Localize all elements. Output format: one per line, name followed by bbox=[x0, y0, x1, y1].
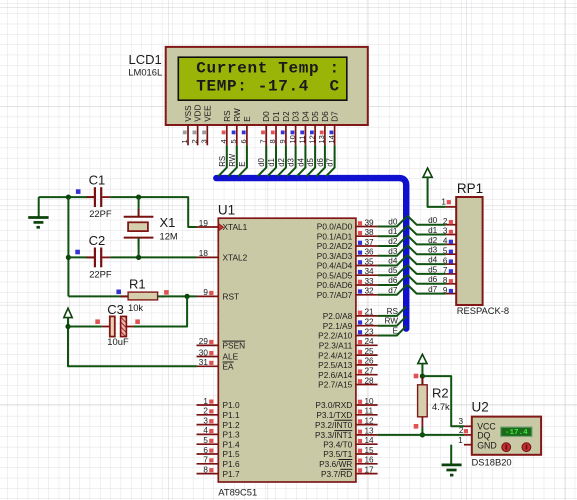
svg-text:12M: 12M bbox=[160, 231, 178, 242]
state square left of C3 bbox=[95, 319, 100, 324]
U1 pin 15 state square bbox=[358, 449, 362, 453]
svg-text:RS: RS bbox=[218, 156, 227, 167]
svg-text:P2.2/A10: P2.2/A10 bbox=[318, 331, 353, 341]
LCD pin 3 VEE stub bbox=[206, 125, 208, 145]
wire bus to RP1 pin 9 (d7) bbox=[407, 284, 446, 293]
svg-text:d5: d5 bbox=[428, 265, 438, 274]
LCD pin 8 state square bbox=[271, 131, 275, 135]
U1 pin 9 state square bbox=[209, 291, 213, 295]
svg-text:11: 11 bbox=[298, 136, 307, 144]
svg-text:D3: D3 bbox=[292, 111, 301, 122]
svg-text:d0: d0 bbox=[428, 216, 438, 225]
svg-text:23: 23 bbox=[365, 327, 375, 336]
svg-text:d6: d6 bbox=[316, 158, 325, 167]
svg-text:d3: d3 bbox=[388, 247, 398, 256]
svg-text:3: 3 bbox=[458, 417, 463, 426]
svg-text:GND: GND bbox=[477, 441, 497, 451]
U1 pin 21 state square bbox=[358, 311, 362, 315]
U1 pin 8 state square bbox=[209, 468, 213, 472]
svg-text:EA: EA bbox=[223, 362, 235, 372]
svg-text:P2.3/A11: P2.3/A11 bbox=[319, 341, 353, 351]
RP1 pin 3 stub bbox=[446, 234, 456, 236]
svg-text:2: 2 bbox=[203, 407, 208, 416]
LCD pin 13 D6 stub bbox=[324, 125, 326, 145]
LCD pin 14 state square bbox=[330, 131, 334, 135]
U2 pin 3 VCC stub bbox=[464, 425, 472, 427]
svg-text:d7: d7 bbox=[428, 285, 438, 294]
junction at rail/C1 bbox=[66, 195, 71, 200]
wire rail vertical C1-C2-R1 bbox=[67, 197, 69, 296]
XTAL1 clock input arrowhead bbox=[219, 224, 224, 231]
svg-text:14: 14 bbox=[327, 135, 336, 143]
LCD pin 6 state square bbox=[242, 131, 246, 135]
U1 pin 32 state square bbox=[358, 289, 362, 293]
svg-text:R2: R2 bbox=[432, 386, 449, 401]
U1 pin 35 P0.4/AD4 stub bbox=[356, 265, 378, 267]
wire P0.2 to bus (d2) bbox=[378, 237, 407, 246]
junction C2/crystal bbox=[136, 255, 141, 260]
U1 pin 16 P3.6/WR stub bbox=[356, 463, 378, 465]
svg-text:XTAL2: XTAL2 bbox=[223, 253, 248, 263]
svg-text:39: 39 bbox=[365, 218, 375, 227]
svg-text:P3.6/WR: P3.6/WR bbox=[319, 459, 352, 469]
svg-text:RW: RW bbox=[233, 108, 242, 122]
U1 pin 26 P2.5/A13 stub bbox=[356, 364, 378, 366]
svg-text:P0.5/AD5: P0.5/AD5 bbox=[317, 270, 353, 280]
LCD pin 5 state square bbox=[232, 131, 236, 135]
svg-text:30: 30 bbox=[199, 348, 209, 357]
U1 pin 11 P3.1/TXD stub bbox=[356, 414, 378, 416]
U1 pin 1 state square bbox=[209, 400, 213, 404]
LCD pin 7 D0 stub bbox=[265, 125, 267, 145]
svg-text:38: 38 bbox=[365, 228, 375, 237]
RP1 pin 4 state square bbox=[449, 240, 453, 244]
LCD pin 4 state square bbox=[222, 131, 226, 135]
svg-text:VSS: VSS bbox=[184, 105, 193, 122]
svg-text:ALE: ALE bbox=[223, 352, 239, 362]
wire P2.2 to bus (E) bbox=[378, 326, 407, 335]
wire P0.1 to bus (d1) bbox=[378, 227, 407, 236]
svg-text:RST: RST bbox=[223, 292, 240, 302]
U1 pin 37 P0.2/AD2 stub bbox=[356, 245, 378, 247]
U1 pin 21 P2.0/A8 stub bbox=[356, 315, 378, 317]
U1 pin 27 state square bbox=[358, 369, 362, 373]
RP1 pin 6 stub bbox=[446, 263, 456, 265]
svg-text:5: 5 bbox=[203, 436, 208, 445]
LCD1 screen bbox=[178, 57, 346, 100]
crystal X1 12M bbox=[138, 197, 140, 217]
U1 pin 6 P1.5 stub bbox=[197, 453, 219, 455]
wire LCD pin 12 to bus (d5) bbox=[307, 145, 316, 176]
wire bus to RP1 pin 8 (d6) bbox=[407, 275, 446, 284]
svg-text:P1.2: P1.2 bbox=[223, 420, 240, 430]
wire bus to RP1 pin 4 (d2) bbox=[407, 235, 446, 244]
svg-text:28: 28 bbox=[365, 376, 375, 385]
power arrow (VCC) for R2 bbox=[418, 354, 427, 376]
LCD pin 8 D1 stub bbox=[275, 125, 277, 145]
svg-text:AT89C51: AT89C51 bbox=[218, 486, 257, 497]
state square left of R1 bbox=[116, 290, 121, 295]
svg-text:7: 7 bbox=[258, 139, 267, 143]
capacitor C1 bbox=[86, 196, 94, 198]
state square at R2 bottom pin bbox=[414, 424, 419, 429]
power arrow (VCC) left bbox=[64, 308, 72, 326]
svg-text:d5: d5 bbox=[306, 157, 315, 166]
svg-text:36: 36 bbox=[365, 248, 375, 257]
svg-text:d6: d6 bbox=[388, 276, 398, 285]
LCD pin 5 RW stub bbox=[236, 125, 238, 145]
svg-text:VDD: VDD bbox=[194, 104, 203, 121]
wire VCC arrow to C3 and EA bbox=[68, 317, 197, 366]
svg-text:1: 1 bbox=[203, 397, 208, 406]
U1 pin 11 state square bbox=[358, 410, 362, 414]
U1 pin 23 state square bbox=[358, 330, 362, 334]
svg-text:22PF: 22PF bbox=[89, 208, 112, 219]
svg-text:P3.4/T0: P3.4/T0 bbox=[323, 439, 352, 449]
U1 pin 3 state square bbox=[209, 419, 213, 423]
wire bus to RP1 pin 6 (d4) bbox=[407, 255, 446, 264]
svg-text:2: 2 bbox=[459, 426, 464, 435]
LCD pin 14 D7 stub bbox=[334, 125, 336, 145]
svg-text:P3.1/TXD: P3.1/TXD bbox=[316, 410, 352, 420]
U1 pin 27 P2.6/A14 stub bbox=[356, 374, 378, 376]
wire VCC arrow to R2 top bbox=[421, 363, 423, 384]
U1 pin 30 state square bbox=[209, 351, 213, 355]
wire LCD pin 13 to bus (d6) bbox=[316, 145, 325, 176]
RP1 pin 4 stub bbox=[446, 243, 456, 245]
svg-text:P0.1/AD1: P0.1/AD1 bbox=[317, 231, 353, 241]
resistor pack RP1 body bbox=[456, 197, 482, 305]
LCD pin 1 state square bbox=[183, 131, 187, 135]
svg-text:26: 26 bbox=[365, 357, 375, 366]
svg-text:Current Temp :: Current Temp : bbox=[196, 60, 340, 78]
svg-text:D2: D2 bbox=[282, 111, 291, 122]
U1 pin 22 P2.1/A9 stub bbox=[356, 325, 378, 327]
svg-text:P3.5/T1: P3.5/T1 bbox=[323, 449, 352, 459]
U1 pin 2 state square bbox=[209, 409, 213, 413]
wire C2 right to XTAL2 bbox=[110, 256, 196, 258]
junction R2/DQ bbox=[420, 432, 425, 437]
svg-text:12: 12 bbox=[307, 135, 316, 143]
svg-text:3: 3 bbox=[200, 139, 209, 143]
svg-text:7: 7 bbox=[203, 456, 208, 465]
U1 pin 29 state square bbox=[209, 340, 213, 344]
state square right of R1 bbox=[164, 290, 169, 295]
U1 pin 36 state square bbox=[358, 251, 362, 255]
wire LCD pin 7 to bus (d0) bbox=[258, 145, 267, 176]
svg-text:D7: D7 bbox=[331, 111, 340, 122]
wire LCD pin 5 to bus (RW) bbox=[228, 145, 237, 176]
U1 pin 19 XTAL1 stub bbox=[197, 226, 219, 228]
wire LCD pin 10 to bus (d3) bbox=[287, 145, 296, 176]
U1 pin 7 P1.6 stub bbox=[197, 463, 219, 465]
U1 pin 2 P1.1 stub bbox=[197, 414, 219, 416]
svg-text:d4: d4 bbox=[388, 257, 398, 266]
svg-text:25: 25 bbox=[365, 347, 375, 356]
svg-text:6: 6 bbox=[239, 139, 248, 143]
U2 pin 2 DQ stub bbox=[464, 434, 472, 436]
U2 temperature display bbox=[501, 427, 532, 437]
U1 pin 32 P0.7/AD7 stub bbox=[356, 294, 378, 296]
RP1 pin 2 state square bbox=[449, 220, 453, 224]
svg-text:D4: D4 bbox=[301, 111, 310, 122]
svg-text:RP1: RP1 bbox=[457, 181, 483, 196]
svg-text:P1.3: P1.3 bbox=[223, 430, 240, 440]
LCD pin 11 state square bbox=[300, 131, 304, 135]
svg-text:E: E bbox=[238, 162, 247, 167]
U1 pin 28 state square bbox=[358, 379, 362, 383]
state square right of C3 bbox=[135, 319, 140, 324]
svg-text:RW: RW bbox=[228, 153, 237, 166]
capacitor C3 10uF (electrolytic) bbox=[102, 326, 110, 328]
U1 pin 25 P2.4/A12 stub bbox=[356, 354, 378, 356]
U1 pin 5 P1.4 stub bbox=[197, 443, 219, 445]
wire VCC to C3 left bbox=[68, 326, 102, 328]
svg-text:RS: RS bbox=[223, 110, 232, 122]
U1 pin 38 P0.1/AD1 stub bbox=[356, 235, 378, 237]
svg-text:d5: d5 bbox=[388, 266, 398, 275]
LCD pin 3 state square bbox=[202, 131, 206, 135]
svg-text:R1: R1 bbox=[129, 277, 146, 292]
RP1 pin 3 state square bbox=[449, 230, 453, 234]
U1 pin 12 state square bbox=[358, 419, 362, 423]
U1 pin 36 P0.3/AD3 stub bbox=[356, 255, 378, 257]
svg-text:P0.3/AD3: P0.3/AD3 bbox=[317, 251, 353, 261]
svg-text:P2.0/A8: P2.0/A8 bbox=[323, 311, 353, 321]
svg-text:1: 1 bbox=[458, 436, 463, 445]
svg-text:D5: D5 bbox=[311, 111, 320, 122]
U1 pin 10 state square bbox=[358, 400, 362, 404]
wire bus to RP1 pin 5 (d3) bbox=[407, 245, 446, 254]
LCD pin 2 VDD stub bbox=[197, 125, 199, 145]
svg-text:-17.4: -17.4 bbox=[505, 429, 528, 437]
U1 pin 23 P2.2/A10 stub bbox=[356, 335, 378, 337]
wire LCD pin 11 to bus (d4) bbox=[297, 145, 306, 176]
svg-text:1: 1 bbox=[441, 198, 446, 207]
svg-text:18: 18 bbox=[199, 249, 209, 258]
svg-text:P3.7/RD: P3.7/RD bbox=[321, 469, 352, 479]
state square near C1 bbox=[76, 189, 81, 194]
svg-text:d7: d7 bbox=[326, 158, 335, 167]
U1 pin 31 EA stub bbox=[197, 365, 219, 367]
svg-text:P1.7: P1.7 bbox=[223, 469, 240, 479]
U2 button 2 bbox=[522, 443, 531, 452]
U1 pin 7 state square bbox=[209, 458, 213, 462]
svg-text:34: 34 bbox=[365, 267, 375, 276]
LCD pin 10 D3 stub bbox=[295, 125, 297, 145]
svg-text:C1: C1 bbox=[89, 172, 106, 187]
U1 pin 1 P1.0 stub bbox=[197, 404, 219, 406]
wire VCC to U2 VCC pin bbox=[422, 376, 464, 426]
svg-text:P1.4: P1.4 bbox=[223, 439, 240, 449]
U1 pin 26 state square bbox=[358, 360, 362, 364]
svg-text:d4: d4 bbox=[428, 256, 438, 265]
svg-text:32: 32 bbox=[365, 287, 375, 296]
svg-text:P0.2/AD2: P0.2/AD2 bbox=[317, 241, 353, 251]
svg-text:9: 9 bbox=[278, 139, 287, 143]
U1 pin 9 RST stub bbox=[197, 295, 219, 297]
svg-text:U1: U1 bbox=[218, 203, 235, 218]
LCD pin 9 D2 stub bbox=[285, 125, 287, 145]
svg-text:33: 33 bbox=[365, 277, 375, 286]
LCD pin 6 E stub bbox=[246, 125, 248, 145]
U1 pin 38 state square bbox=[358, 231, 362, 235]
U1 pin 14 P3.4/T0 stub bbox=[356, 443, 378, 445]
wire C1 right to XTAL1 bbox=[110, 197, 196, 227]
RP1 pin 1 stub bbox=[446, 206, 456, 208]
svg-text:35: 35 bbox=[365, 257, 375, 266]
U1 pin 12 P3.2/INT0 stub bbox=[356, 424, 378, 426]
temperature sensor U2 DS18B20 body bbox=[472, 417, 541, 455]
wire P2.0 to bus (RS) bbox=[378, 307, 407, 316]
wire P0.5 to bus (d5) bbox=[378, 266, 407, 275]
svg-text:13: 13 bbox=[317, 135, 326, 143]
svg-text:d6: d6 bbox=[428, 275, 438, 284]
wire ground to C1 (net XTAL-GND rail) bbox=[39, 196, 94, 198]
ground symbol top-left bbox=[38, 197, 40, 217]
U1 pin 24 P2.3/A11 stub bbox=[356, 344, 378, 346]
svg-text:d7: d7 bbox=[388, 286, 398, 295]
U1 pin 5 state square bbox=[209, 439, 213, 443]
svg-text:d2: d2 bbox=[428, 236, 438, 245]
U1 pin 14 state square bbox=[358, 439, 362, 443]
U2 button 1 bbox=[502, 443, 511, 452]
wire R2 bottom to DQ net bbox=[421, 427, 423, 435]
svg-text:4: 4 bbox=[219, 139, 228, 143]
U2 pin 1 GND stub bbox=[464, 444, 472, 446]
svg-text:19: 19 bbox=[199, 219, 209, 228]
svg-text:9: 9 bbox=[203, 288, 208, 297]
svg-text:DS18B20: DS18B20 bbox=[472, 457, 512, 468]
svg-text:P0.7/AD7: P0.7/AD7 bbox=[317, 290, 353, 300]
svg-text:LCD1: LCD1 bbox=[129, 52, 162, 67]
svg-text:P2.7/A15: P2.7/A15 bbox=[318, 380, 353, 390]
svg-text:2: 2 bbox=[190, 139, 199, 143]
U1 pin 24 state square bbox=[358, 340, 362, 344]
capacitor C2 bbox=[68, 256, 94, 258]
svg-text:8: 8 bbox=[203, 465, 208, 474]
resistor R2 4.7k bbox=[421, 377, 423, 385]
wire LCD pin 8 to bus (d1) bbox=[267, 145, 276, 176]
svg-text:P1.0: P1.0 bbox=[223, 400, 240, 410]
svg-text:37: 37 bbox=[365, 238, 375, 247]
svg-text:P3.2/INT0: P3.2/INT0 bbox=[315, 420, 353, 430]
U1 pin 33 P0.6/AD6 stub bbox=[356, 284, 378, 286]
RP1 pin 9 state square bbox=[449, 289, 453, 293]
svg-text:21: 21 bbox=[365, 308, 375, 317]
U1 pin 28 P2.7/A15 stub bbox=[356, 384, 378, 386]
RP1 pin 1 state square bbox=[447, 200, 451, 204]
svg-text:PSEN: PSEN bbox=[223, 341, 246, 351]
svg-text:d1: d1 bbox=[428, 226, 438, 235]
svg-text:D0: D0 bbox=[262, 111, 271, 122]
svg-text:10: 10 bbox=[288, 135, 297, 143]
svg-text:10uF: 10uF bbox=[107, 336, 129, 347]
U1 pin 10 P3.0/RXD stub bbox=[356, 404, 378, 406]
junction VCC/R2/U2-VCC bbox=[420, 374, 425, 379]
svg-text:d1: d1 bbox=[388, 227, 398, 236]
U1 pin 6 state square bbox=[209, 449, 213, 453]
wire P0.6 to bus (d6) bbox=[378, 276, 407, 285]
svg-text:16: 16 bbox=[365, 456, 375, 465]
RP1 pin 5 state square bbox=[449, 250, 453, 254]
svg-text:LM016L: LM016L bbox=[128, 67, 162, 78]
wire junction down to C3 bbox=[134, 296, 188, 326]
LCD pin 10 state square bbox=[291, 131, 295, 135]
wire P0.7 to bus (d7) bbox=[378, 285, 407, 294]
LCD LCD1 LM016L body bbox=[166, 47, 368, 125]
LCD pin 12 D5 stub bbox=[314, 125, 316, 145]
svg-text:DQ: DQ bbox=[477, 431, 490, 441]
svg-text:D1: D1 bbox=[272, 111, 281, 122]
svg-text:12: 12 bbox=[365, 416, 375, 425]
RP1 pin 8 state square bbox=[449, 279, 453, 283]
svg-text:3: 3 bbox=[203, 416, 208, 425]
wire LCD pin 6 to bus (E) bbox=[238, 145, 247, 176]
U1 pin 34 state square bbox=[358, 270, 362, 274]
svg-text:d2: d2 bbox=[388, 237, 398, 246]
U1 pin 18 XTAL2 stub bbox=[197, 256, 219, 258]
svg-text:RS: RS bbox=[387, 307, 399, 316]
junction RST/R1/C3 bbox=[185, 294, 190, 299]
svg-text:P2.4/A12: P2.4/A12 bbox=[318, 350, 353, 360]
U1 pin 13 P3.3/INT1 stub bbox=[356, 434, 378, 436]
svg-text:d2: d2 bbox=[277, 158, 286, 167]
U1 pin 29 PSEN stub bbox=[197, 344, 219, 346]
LCD pin 1 VSS stub bbox=[187, 125, 189, 145]
U1 pin 4 P1.3 stub bbox=[197, 433, 219, 435]
power arrow (VCC) for RP1 bbox=[423, 168, 432, 207]
wire LCD pin 14 to bus (d7) bbox=[326, 145, 335, 176]
svg-text:P2.1/A9: P2.1/A9 bbox=[323, 321, 353, 331]
resistor R1 10k bbox=[68, 295, 128, 297]
svg-text:27: 27 bbox=[365, 367, 375, 376]
svg-text:d3: d3 bbox=[287, 158, 296, 167]
svg-text:P1.5: P1.5 bbox=[223, 449, 240, 459]
state square near C2 bbox=[75, 250, 80, 255]
U1 pin 3 P1.2 stub bbox=[197, 424, 219, 426]
svg-text:P1.1: P1.1 bbox=[223, 410, 240, 420]
svg-text:VEE: VEE bbox=[203, 105, 212, 122]
U1 pin 25 state square bbox=[358, 350, 362, 354]
svg-text:d3: d3 bbox=[428, 246, 438, 255]
svg-text:17: 17 bbox=[365, 465, 375, 474]
U1 pin 37 state square bbox=[358, 241, 362, 245]
U1 pin 13 state square bbox=[358, 430, 362, 434]
svg-text:P2.6/A14: P2.6/A14 bbox=[318, 370, 353, 380]
LCD pin 7 state square bbox=[261, 131, 265, 135]
svg-text:P0.6/AD6: P0.6/AD6 bbox=[317, 280, 353, 290]
U1 pin 15 P3.5/T1 stub bbox=[356, 453, 378, 455]
svg-text:5: 5 bbox=[229, 139, 238, 143]
svg-text:14: 14 bbox=[365, 436, 375, 445]
svg-text:4: 4 bbox=[203, 426, 208, 435]
LCD pin 13 state square bbox=[320, 131, 324, 135]
svg-text:E: E bbox=[243, 116, 252, 122]
svg-text:C2: C2 bbox=[89, 233, 106, 248]
LCD pin 9 state square bbox=[281, 131, 285, 135]
U1 pin 34 P0.5/AD5 stub bbox=[356, 274, 378, 276]
svg-text:P0.0/AD0: P0.0/AD0 bbox=[317, 222, 353, 232]
svg-text:d0: d0 bbox=[257, 157, 266, 166]
U1 pin 39 P0.0/AD0 stub bbox=[356, 226, 378, 228]
U1 pin 22 state square bbox=[358, 320, 362, 324]
junction rail at C2 bbox=[66, 255, 71, 260]
U1 pin 35 state square bbox=[358, 260, 362, 264]
svg-text:XTAL1: XTAL1 bbox=[223, 222, 248, 232]
U2 pin 2 state square bbox=[464, 429, 468, 433]
wire P0.0 to bus (d0) bbox=[378, 217, 407, 226]
